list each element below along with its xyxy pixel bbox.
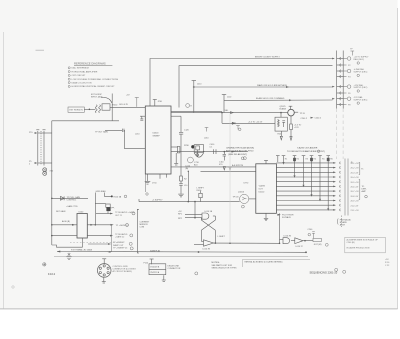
svg-text:WAVE OFF HOLD BRIGHTNESS: WAVE OFF HOLD BRIGHTNESS [257, 84, 288, 87]
svg-text:SWEEP A5: SWEEP A5 [150, 249, 161, 252]
svg-text:U2110: U2110 [259, 192, 266, 194]
svg-text:NOTES:: NOTES: [212, 262, 221, 264]
svg-text:21-1 +5V: 21-1 +5V [351, 210, 360, 212]
svg-text:9 BIT PARALLEL DATA: 9 BIT PARALLEL DATA [71, 249, 92, 252]
svg-text:L010 7B: L010 7B [203, 249, 211, 251]
svg-text:CHARACTER SCAN (BLNK): CHARACTER SCAN (BLNK) [226, 146, 254, 149]
svg-text:OUT 21: OUT 21 [115, 215, 123, 217]
svg-text:Q1006: Q1006 [238, 191, 245, 193]
svg-text:SET GAIN: SET GAIN [56, 210, 66, 213]
svg-text:BLANK HOLD OFF COMMAND: BLANK HOLD OFF COMMAND [256, 97, 285, 100]
svg-text:AMP: AMP [362, 190, 367, 193]
svg-text:U4300: U4300 [153, 133, 160, 135]
svg-text:EXT HORIZ IN: EXT HORIZ IN [70, 110, 84, 112]
svg-text:AMPLITUDE ADJUST R710: AMPLITUDE ADJUST R710 [226, 150, 254, 153]
svg-text:20-4 +5V: 20-4 +5V [351, 177, 360, 179]
svg-text:TP OUT GAIN: TP OUT GAIN [95, 131, 108, 134]
svg-text:SUPPLY (DEC): SUPPLY (DEC) [354, 72, 368, 74]
svg-text:HORIZONTAL AMPLIFIER: HORIZONTAL AMPLIFIER [72, 70, 98, 73]
svg-text:AT CIRCUIT BOARD): AT CIRCUIT BOARD) [113, 270, 133, 273]
svg-text:GRID BIAS: GRID BIAS [96, 190, 107, 193]
svg-text:ASSY: ASSY [340, 224, 346, 227]
svg-text:C240.2: C240.2 [315, 118, 322, 120]
svg-text:Y-AXIS: Y-AXIS [259, 185, 266, 188]
svg-text:BOARD: BOARD [340, 221, 348, 224]
svg-text:IN LATER PRODUCTION: IN LATER PRODUCTION [347, 247, 370, 250]
svg-text:CRT CIRCUIT: CRT CIRCUIT [72, 75, 87, 77]
svg-text:F.10.2: F.10.2 [48, 272, 56, 276]
svg-text:C240 2: C240 2 [301, 118, 308, 120]
svg-text:TP +SWEEP 23: TP +SWEEP 23 [113, 247, 128, 249]
svg-text:Q2025: Q2025 [280, 106, 287, 108]
svg-text:A JUMPER WIRE IS IN PLACE OF: A JUMPER WIRE IS IN PLACE OF [347, 239, 379, 242]
svg-text:Y-AXIS OUT ADDER: Y-AXIS OUT ADDER [297, 147, 318, 150]
svg-text:DELAY LINE: DELAY LINE [168, 264, 180, 267]
svg-text:(A): (A) [186, 167, 189, 170]
svg-text:SUPPLY (DEC): SUPPLY (DEC) [354, 87, 368, 89]
svg-text:TP 20: TP 20 [300, 113, 306, 115]
svg-text:REFERENCE DIAGRAMS: REFERENCE DIAGRAMS [74, 62, 106, 66]
svg-text:TP PULL GAIN: TP PULL GAIN [67, 196, 81, 199]
svg-text:+12V: +12V [294, 127, 299, 129]
svg-text:TP DELAYED: TP DELAYED [115, 233, 128, 236]
svg-text:SWEEP: SWEEP [153, 136, 161, 138]
svg-text:2N2222 A: 2N2222 A [150, 271, 159, 274]
svg-text:20-7 +5V: 20-7 +5V [351, 191, 360, 193]
svg-text:BRIGHT COUNTY SUPPLY: BRIGHT COUNTY SUPPLY [255, 57, 280, 59]
svg-text:21-0 -5V: 21-0 -5V [351, 205, 359, 207]
svg-text:HORIZONTAL/VERTICAL SWEEP CIRC: HORIZONTAL/VERTICAL SWEEP CIRCUIT [72, 85, 116, 88]
svg-text:LOW VOLTAGE POWER RAIL CONNECT: LOW VOLTAGE POWER RAIL CONNECTIONS [72, 78, 119, 81]
svg-text:CONTROL: CONTROL [67, 199, 78, 201]
svg-text:20-9 +5V: 20-9 +5V [351, 201, 360, 203]
svg-text:COM: COM [140, 227, 145, 229]
svg-text:C240 (B): C240 (B) [347, 242, 355, 244]
svg-text:DATA COLLECTION: DATA COLLECTION [72, 81, 92, 84]
svg-text:20-5 +5V: 20-5 +5V [351, 182, 360, 184]
svg-text:(SEE FIG ADJUST): (SEE FIG ADJUST) [228, 153, 247, 156]
svg-text:+GATE 22: +GATE 22 [115, 235, 125, 238]
svg-text:PARTIAL A5: PARTIAL A5 [340, 218, 352, 221]
svg-text:J010 4.7K: J010 4.7K [119, 104, 129, 106]
svg-text:L010 7C: L010 7C [296, 246, 304, 248]
svg-text:CONNECTOR: CONNECTOR [168, 268, 181, 270]
svg-text:20-2 +5V: 20-2 +5V [351, 168, 360, 170]
svg-text:+GAIN CTRL: +GAIN CTRL [66, 205, 79, 208]
svg-text:SUPPLY (DEC): SUPPLY (DEC) [354, 99, 368, 101]
svg-text:DAC INTERFACE: DAC INTERFACE [72, 67, 90, 70]
svg-text:+5 SUPPLY: +5 SUPPLY [152, 200, 163, 202]
svg-text:L016 7B: L016 7B [284, 236, 292, 238]
svg-text:RAMP OUT: RAMP OUT [113, 244, 124, 247]
svg-text:L SHIFT: L SHIFT [218, 236, 226, 238]
svg-text:J017 (M): J017 (M) [314, 244, 322, 246]
svg-text:SEQUENCING 2261-10: SEQUENCING 2261-10 [310, 271, 338, 275]
svg-text:INPUT JACK: INPUT JACK [91, 95, 103, 98]
svg-text:RAIL (DEC): RAIL (DEC) [354, 58, 365, 61]
svg-text:PARTIAL A5 BOARD (LOCATED BEHI: PARTIAL A5 BOARD (LOCATED BEHIND) [245, 261, 283, 264]
svg-text:+3.5 TO +12.5V: +3.5 TO +12.5V [248, 121, 263, 123]
svg-text:20-3 -5V: 20-3 -5V [351, 172, 359, 174]
svg-text:TP 6.8: TP 6.8 [233, 197, 240, 199]
svg-text:L010 7A: L010 7A [205, 210, 213, 213]
svg-text:A010 (B): A010 (B) [62, 220, 70, 223]
svg-text:20-8 -5V: 20-8 -5V [351, 196, 359, 198]
svg-text:FLYBACK: FLYBACK [282, 216, 292, 219]
svg-text:A-B SPRITE: A-B SPRITE [232, 164, 244, 167]
svg-text:SEMICONDUCTOR TYPES: SEMICONDUCTOR TYPES [212, 268, 238, 270]
svg-text:1N4148 B: 1N4148 B [150, 267, 160, 269]
svg-text:20-6 -5V: 20-6 -5V [351, 187, 359, 189]
svg-text:TO DEFLECTION AMPLIFIER (CONT): TO DEFLECTION AMPLIFIER (CONT) [287, 150, 325, 153]
svg-text:R110 3A: R110 3A [114, 195, 122, 198]
